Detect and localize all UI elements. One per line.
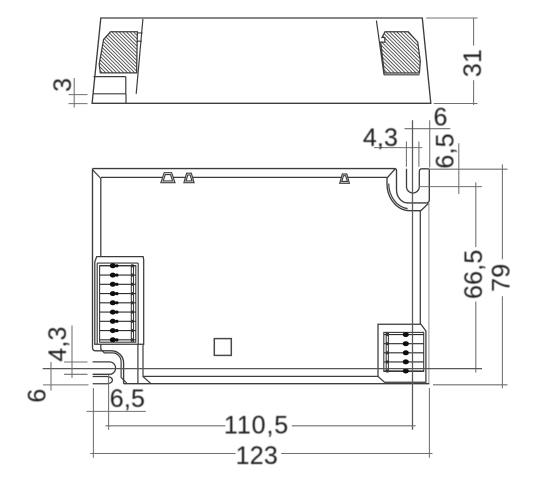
svg-text:6,5: 6,5 (110, 385, 145, 413)
svg-text:6,5: 6,5 (431, 133, 459, 168)
svg-text:79: 79 (487, 264, 515, 292)
svg-text:6: 6 (434, 104, 448, 132)
svg-text:6: 6 (24, 388, 52, 402)
svg-text:4,3: 4,3 (44, 326, 72, 361)
svg-text:110,5: 110,5 (224, 412, 289, 440)
svg-text:31: 31 (459, 49, 487, 77)
svg-text:3: 3 (49, 78, 77, 92)
svg-text:4,3: 4,3 (363, 124, 398, 152)
svg-text:123: 123 (236, 442, 278, 470)
svg-text:66,5: 66,5 (460, 250, 488, 299)
